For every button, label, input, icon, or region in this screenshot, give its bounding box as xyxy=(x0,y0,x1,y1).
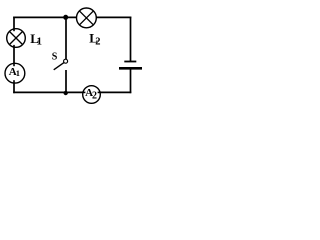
lamp L2 xyxy=(77,8,97,28)
ammeter A2 xyxy=(82,86,101,104)
wire top left segment xyxy=(13,16,77,18)
wire middle branch lower segment xyxy=(65,70,67,93)
svg-text:S: S xyxy=(52,51,58,62)
junction node top xyxy=(63,15,68,20)
wire left lower segment xyxy=(13,83,15,93)
wire bottom left segment xyxy=(13,91,83,93)
lamp L1 xyxy=(7,28,26,47)
wire middle branch upper segment xyxy=(65,17,67,59)
label L1 xyxy=(30,31,42,47)
wire top right segment xyxy=(96,16,131,18)
ammeter A1 xyxy=(5,63,25,84)
wire right lower segment xyxy=(130,68,132,93)
label L2 xyxy=(89,30,100,47)
svg-text:1: 1 xyxy=(16,68,20,78)
switch S blade xyxy=(54,63,64,70)
svg-text:2: 2 xyxy=(92,91,97,102)
switch S pivot xyxy=(64,59,68,63)
wire left middle segment xyxy=(13,47,15,64)
junction node bottom xyxy=(63,91,67,95)
svg-text:1: 1 xyxy=(37,36,43,48)
battery positive plate xyxy=(124,61,136,63)
svg-text:2: 2 xyxy=(95,37,100,48)
wire bottom right segment xyxy=(100,91,131,93)
battery negative plate xyxy=(119,67,142,70)
wire right upper segment xyxy=(130,17,132,61)
wire left upper segment xyxy=(13,17,15,30)
